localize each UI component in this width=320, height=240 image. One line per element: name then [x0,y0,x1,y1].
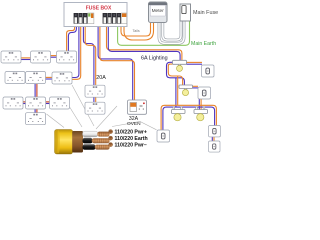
fuse box (consumer unit) [64,3,127,27]
row3 socket 3 [50,97,70,109]
row3 socket 2 [26,97,46,109]
wire: bottom lighting loop (orange) [161,105,216,130]
wire: service cable U loops (gray/white tubes) [159,21,184,43]
ceiling rose 3 + bulb (hangs below wire) [172,107,186,121]
leader line labels to 20A [96,106,117,129]
wire: rose1 to switch1 [186,61,202,63]
row4 socket [26,113,46,125]
cable: black conductor insulation bottom [83,144,96,150]
svg-text:Main Fuse: Main Fuse [193,10,218,16]
cable: yellow outer sheath [55,130,73,155]
svg-text:32A: 32A [129,116,139,122]
svg-text:Meter: Meter [152,8,165,14]
switch 4 [209,126,221,137]
leader line labels to lighting [112,122,157,130]
svg-text:20A: 20A [96,75,106,81]
svg-text:FUSE BOX: FUSE BOX [86,6,112,12]
wire: rose1 loop down to rose2 (orange) [168,64,182,85]
leader line row4 to cable [47,114,65,128]
row2 socket 3 [52,72,72,84]
wire: row2 socket links [45,76,52,78]
svg-text:6A Lighting: 6A Lighting [141,55,168,61]
ceiling rose 1 + bulb [173,60,187,71]
wire: ring cable A fusebox to row2 socket3 (purple) [72,27,79,78]
row2 socket 2 [26,72,46,84]
wire: row3 to row4 drop [34,109,36,113]
wire: switch4 to switch5 [211,136,213,142]
meter [149,2,168,23]
wire: 20A radial cable B (purple) [83,27,94,86]
cable: copper strands bottom [95,145,110,150]
20A socket 1 [85,85,105,97]
wire: drop from unit loop down to bottom lighting loop [175,78,177,107]
wire: rose1 loop down to rose2 (purple) [167,62,185,85]
label icon 1 [109,130,113,134]
cable: brown inner sheath [72,131,83,153]
row1 socket 1 [1,51,21,63]
ceiling rose 4 + bulb (hangs below wire) [194,107,208,121]
20A socket 2 [85,102,105,114]
ceiling rose 2 + bulb [179,85,193,96]
main fuse [180,4,191,21]
switch 3 [157,130,170,142]
wire: ring cable D fusebox to row1 socket3 (orange) [67,27,75,52]
row2 socket 1 [5,72,25,84]
row1 socket 2 [31,51,51,63]
svg-text:Main Earth: Main Earth [191,41,216,47]
label icon 2 [109,136,113,140]
svg-text:110/220 Pwr–: 110/220 Pwr– [115,142,147,148]
32A oven connection unit [128,100,147,114]
leader line row3-s3 to cable [69,106,82,127]
wire: bottom lighting loop (purple) [163,107,215,130]
switch 1 [202,65,215,77]
label icon 3 [109,143,113,147]
wire: 20A socket1 to socket2 link [93,97,95,102]
cable: copper strands mid [92,138,110,143]
cable: white conductor insulation [83,131,99,137]
wire: meter tails (orange pair) [121,23,151,36]
wire: row1 socket links [21,57,31,59]
svg-text:Tails: Tails [133,29,140,33]
leader line row2-s3 to cable [72,85,94,126]
wire: ring cable A fusebox to row2 socket3 (orange) [72,27,81,80]
row1 socket 3 [57,51,77,63]
wire: 32A oven cable C (orange) [100,27,135,101]
svg-text:OVEN: OVEN [127,121,141,127]
fuse group 2 [103,13,107,24]
fuse group 1 [74,13,78,24]
switch 2 [198,87,211,99]
wire: main earth (green) [118,22,190,46]
wire: row3 socket links [23,101,26,103]
svg-text:110/220 Earth: 110/220 Earth [115,136,148,142]
wire: ring cable D fusebox to row1 socket3 (purple) [68,27,76,52]
svg-text:110/220 Pwr+: 110/220 Pwr+ [115,129,147,135]
cable: copper strands top [97,132,109,137]
wire: rose2 to switch2 [193,85,199,87]
wire: row2 to row3 drop [34,84,36,97]
wire: 6A lighting feed (orange) [107,27,182,61]
wire: 32A oven cable C (purple) [98,27,133,101]
row3 socket 1 [3,97,23,109]
wire: switch2 drop to rose4 [198,98,200,110]
cable: black conductor insulation mid [83,138,93,144]
wire: 6A lighting feed (purple) [108,27,180,61]
switch 5 [209,141,221,152]
wire: 20A radial cable B (orange) [85,27,96,86]
